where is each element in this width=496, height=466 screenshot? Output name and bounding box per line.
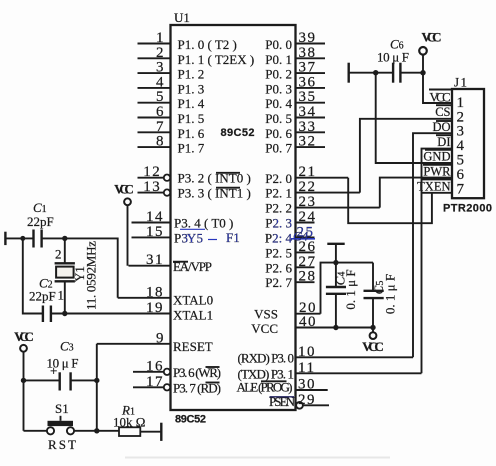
- svg-text:18: 18: [146, 284, 164, 300]
- svg-text:15: 15: [146, 224, 164, 240]
- svg-text:36: 36: [299, 74, 317, 90]
- svg-text:7: 7: [457, 182, 466, 198]
- J1 GND label box: [423, 150, 452, 164]
- T-bar terminal right of R1: [160, 423, 162, 441]
- svg-text:26: 26: [299, 239, 317, 255]
- svg-text:VCC: VCC: [14, 329, 34, 344]
- wire P2.0 to TXEN: [348, 178, 432, 224]
- pin 26 P2.5: [265, 239, 316, 261]
- svg-text:+: +: [50, 363, 57, 378]
- pin 15 P3.5 (blue artifact text): [132, 224, 240, 246]
- svg-text:P: P: [174, 230, 181, 245]
- pin 35 P0.4: [265, 89, 325, 111]
- svg-text:1: 1: [156, 30, 165, 46]
- pin 14 P3.4: [132, 209, 234, 231]
- J1 TXEN label box: [417, 179, 452, 193]
- svg-text:89C52: 89C52: [221, 127, 255, 139]
- junction crystal top: [62, 236, 67, 241]
- svg-text:P0. 7: P0. 7: [265, 141, 292, 156]
- svg-text:PWR: PWR: [423, 165, 451, 179]
- svg-text:VCC: VCC: [362, 339, 384, 354]
- wire C3 to reset node: [71, 379, 97, 381]
- svg-text:RST: RST: [48, 437, 76, 452]
- svg-text:VCC: VCC: [422, 30, 442, 45]
- svg-text:35: 35: [299, 89, 317, 105]
- svg-text:P2. 5: P2. 5: [265, 245, 292, 260]
- svg-text:P0. 2: P0. 2: [265, 67, 292, 82]
- svg-text:P1. 0 ( T2 ): P1. 0 ( T2 ): [178, 37, 237, 52]
- junction C3 left: [21, 378, 26, 383]
- pin 16 P3.6/WR with bubble: [133, 358, 221, 380]
- pin 21 P2.0: [265, 164, 348, 186]
- pin 10 RXD P3.0: [238, 344, 414, 366]
- svg-text:PTR2000: PTR2000: [443, 203, 492, 215]
- svg-text:(RXD) P3. 0: (RXD) P3. 0: [238, 350, 295, 365]
- J1 DI label box: [436, 135, 452, 149]
- junction VCC rail at C5: [370, 325, 375, 330]
- wire VCC to EA/VPP: [127, 205, 129, 266]
- svg-text:3: 3: [156, 60, 165, 76]
- svg-text:16: 16: [146, 358, 164, 374]
- svg-text:14: 14: [146, 209, 164, 225]
- junction reset node at C3: [94, 378, 99, 383]
- svg-text:28: 28: [299, 269, 317, 285]
- capacitor C1 plates: [34, 230, 42, 248]
- pin 27 P2.6: [265, 254, 316, 276]
- svg-text:10k Ω: 10k Ω: [113, 415, 145, 430]
- pin 24 P2.3: [265, 209, 316, 231]
- switch S1: [47, 416, 74, 435]
- capacitor C4: [326, 263, 346, 328]
- pin 25 P2.4 (blue artifact number): [265, 225, 315, 246]
- J1 DO label box: [432, 120, 452, 134]
- crystal Y1: [55, 238, 75, 313]
- pin 28 P2.7: [265, 269, 316, 291]
- svg-text:9: 9: [156, 330, 165, 346]
- svg-text:5: 5: [156, 89, 165, 105]
- svg-text:P1. 2: P1. 2: [178, 67, 205, 82]
- svg-text:RESET: RESET: [173, 339, 213, 354]
- pin 18 XTAL0: [118, 284, 213, 307]
- svg-text:P2. 2: P2. 2: [265, 201, 292, 216]
- svg-text:3Y 5: 3Y 5: [182, 230, 204, 245]
- svg-text:22pF: 22pF: [29, 289, 56, 304]
- T-bar terminal left of C6: [348, 63, 350, 83]
- pin 29 PSEN with bubble: [269, 392, 329, 409]
- wire C2 to ground rail: [23, 238, 43, 313]
- wire C6 to VCC node: [400, 72, 423, 74]
- svg-text:F1: F1: [226, 230, 240, 245]
- wire VCC down to switch rail: [23, 352, 25, 431]
- pin 8 P1.7: [138, 134, 205, 156]
- svg-text:P1. 6: P1. 6: [178, 126, 205, 141]
- wire S1 to R1: [74, 430, 119, 432]
- svg-text:P0. 6: P0. 6: [265, 126, 292, 141]
- svg-text:4: 4: [156, 74, 165, 90]
- svg-text:10: 10: [298, 344, 316, 360]
- svg-text:P0. 0: P0. 0: [265, 37, 292, 52]
- connector J1 body: [452, 89, 484, 198]
- wire reset node to RESET pin: [96, 344, 98, 431]
- VSS rail wire: [321, 263, 374, 314]
- capacitor C6 plates: [393, 63, 400, 83]
- wire C6 node to GND: [376, 73, 452, 163]
- pin 32 P0.7: [265, 134, 325, 156]
- svg-text:24: 24: [299, 209, 317, 225]
- svg-text:22: 22: [299, 179, 317, 195]
- svg-text:P0. 3: P0. 3: [265, 81, 292, 96]
- pin 34 P0.5: [265, 104, 325, 126]
- pin 40 VCC: [251, 314, 373, 336]
- pin 9 RESET: [97, 330, 213, 354]
- svg-text:11. 0592MHz: 11. 0592MHz: [84, 241, 99, 310]
- svg-text:GND: GND: [423, 150, 450, 164]
- junction VSS rail at C4: [333, 260, 338, 265]
- svg-text:0. 1 μ F: 0. 1 μ F: [343, 269, 358, 309]
- pin 36 P0.3: [265, 74, 325, 96]
- pin 6 P1.5: [138, 104, 205, 126]
- svg-text:39: 39: [299, 30, 317, 46]
- VCC symbol below C5: [362, 328, 384, 355]
- wire VCC node to J1 VCC pin: [423, 73, 452, 103]
- svg-text:8: 8: [156, 134, 165, 150]
- pin 11 TXD P3.1: [238, 360, 422, 382]
- svg-text:P1. 1 ( T2EX ): P1. 1 ( T2EX ): [178, 52, 255, 67]
- pin 17 P3.7/RD with bubble: [133, 374, 221, 396]
- svg-text:VCC: VCC: [114, 182, 134, 197]
- capacitor C2 plates: [43, 306, 51, 323]
- capacitor C3 plates: [60, 372, 71, 390]
- faint scan artifact line bottom: [125, 457, 390, 459]
- svg-text:J1: J1: [454, 75, 469, 90]
- svg-text:P2. 3: P2. 3: [265, 216, 292, 231]
- IC U1 89C52 body: [171, 25, 296, 410]
- pin 38 P0.1: [265, 45, 325, 67]
- svg-text:23: 23: [299, 194, 317, 210]
- pin 4 P1.3: [138, 74, 205, 96]
- svg-text:10 μ F: 10 μ F: [377, 50, 409, 65]
- svg-text:P0. 4: P0. 4: [265, 96, 292, 111]
- resistor R1 body: [119, 427, 140, 436]
- svg-text:P2. 1: P2. 1: [265, 186, 292, 201]
- svg-text:22pF: 22pF: [27, 214, 54, 229]
- pin 23 P2.2: [265, 194, 380, 216]
- pin 37 P0.2: [265, 60, 325, 82]
- svg-text:P3. 4 ( T0 ): P3. 4 ( T0 ): [174, 216, 233, 231]
- svg-text:0. 1 μ F: 0. 1 μ F: [383, 274, 398, 314]
- svg-text:XTAL0: XTAL0: [173, 292, 213, 307]
- wire T-bar to C6: [349, 72, 393, 74]
- svg-text:29: 29: [298, 392, 316, 408]
- junction crystal bottom: [62, 311, 67, 316]
- wire C1 to XTAL0: [42, 238, 118, 297]
- svg-text:P0. 5: P0. 5: [265, 111, 292, 126]
- svg-text:12: 12: [143, 164, 161, 180]
- junction GND drop: [373, 70, 378, 75]
- svg-text:DI: DI: [437, 135, 450, 149]
- svg-text:40: 40: [299, 314, 317, 330]
- svg-text:VCC: VCC: [251, 321, 278, 336]
- J1 PWR label box: [423, 165, 452, 179]
- svg-text:30: 30: [298, 377, 316, 393]
- svg-text:37: 37: [299, 60, 317, 76]
- pin 5 P1.4: [138, 89, 205, 111]
- svg-text:P2. 6: P2. 6: [265, 260, 292, 275]
- svg-text:P1. 7: P1. 7: [178, 141, 205, 156]
- svg-text:33: 33: [299, 119, 317, 135]
- junction VCC node: [420, 70, 425, 75]
- pin 20 VSS: [254, 300, 320, 322]
- pin 19 XTAL1: [51, 300, 213, 323]
- svg-text:P0. 1: P0. 1: [265, 52, 292, 67]
- pin 12 P3.2/INT0 with bubble: [138, 164, 251, 186]
- svg-text:P1. 3: P1. 3: [178, 81, 205, 96]
- svg-text:P2: 4: P2: 4: [265, 230, 293, 245]
- svg-text:32: 32: [299, 134, 317, 150]
- svg-text:VCC: VCC: [430, 90, 451, 104]
- T-bar terminal above C4: [327, 243, 344, 245]
- svg-text:P2. 0: P2. 0: [265, 171, 292, 186]
- wire VCC symbol to node: [422, 55, 424, 73]
- pin 31 EA/VPP, tied to VCC: [129, 252, 213, 274]
- pin 39 P0.0: [265, 30, 325, 52]
- svg-text:11: 11: [298, 360, 315, 376]
- ground T-bar for crystal caps: [4, 232, 6, 245]
- svg-text:S1: S1: [55, 401, 69, 416]
- junction C2 rail at C1 net: [20, 236, 25, 241]
- J1 pin numbers 1-7: [457, 95, 466, 198]
- svg-text:1: 1: [58, 288, 65, 303]
- svg-text:CS: CS: [435, 105, 450, 119]
- junction at reset vertical: [94, 428, 99, 433]
- pin 30 ALE/PROG: [237, 377, 328, 395]
- wire R1 to T-bar: [140, 431, 161, 433]
- svg-text:27: 27: [299, 254, 317, 270]
- svg-text:DO: DO: [432, 120, 450, 134]
- svg-text:2: 2: [55, 247, 62, 262]
- svg-text:P1. 5: P1. 5: [178, 111, 205, 126]
- svg-text:VSS: VSS: [254, 307, 278, 322]
- pin 3 P1.2: [138, 60, 205, 82]
- pin 13 P3.3/INT1 with bubble: [138, 179, 251, 201]
- wire T-bar to C1: [5, 237, 33, 239]
- pin 1 P1.0: [138, 30, 237, 52]
- svg-text:PSEN: PSEN: [269, 394, 296, 409]
- pin 7 P1.6: [138, 119, 205, 141]
- svg-text:21: 21: [299, 164, 317, 180]
- svg-text:XTAL1: XTAL1: [173, 308, 213, 323]
- J1 VCC label box: [429, 90, 452, 105]
- VCC symbol top right: [419, 30, 441, 55]
- switch rail wire: [24, 430, 48, 432]
- svg-text:6: 6: [156, 104, 165, 120]
- wire P2.2 to PWR: [380, 178, 452, 208]
- junction VCC rail at C4: [333, 325, 338, 330]
- J1 CS label box: [435, 105, 452, 119]
- svg-text:89C52: 89C52: [175, 414, 206, 426]
- svg-text:2: 2: [156, 45, 165, 61]
- svg-text:13: 13: [143, 179, 161, 195]
- svg-text:31: 31: [146, 252, 164, 268]
- svg-text:P2. 7: P2. 7: [265, 275, 292, 290]
- pin 33 P0.6: [265, 119, 325, 141]
- svg-text:19: 19: [146, 300, 164, 316]
- pin 22 P2.1: [265, 179, 360, 201]
- wire T-bar down to VSS rail: [335, 244, 337, 263]
- wire P2.1 to CS: [360, 119, 452, 193]
- pin 2 P1.1: [138, 45, 255, 67]
- svg-text:P1. 4: P1. 4: [178, 96, 205, 111]
- VCC symbol at EA/VPP: [114, 182, 134, 206]
- wire P3.0 to DO: [413, 133, 452, 357]
- svg-text:7: 7: [156, 119, 165, 135]
- capacitor C5: [364, 263, 384, 328]
- svg-text:38: 38: [299, 45, 317, 61]
- svg-text:17: 17: [146, 374, 164, 390]
- svg-text:U1: U1: [174, 10, 190, 25]
- wire P3.1 to DI: [422, 149, 453, 374]
- wire to C3: [24, 379, 60, 381]
- VCC symbol reset circuit: [14, 329, 34, 352]
- svg-text:34: 34: [299, 104, 317, 120]
